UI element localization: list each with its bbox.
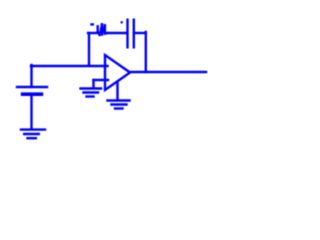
wire feedback right vertical <box>145 32 147 72</box>
wire resistor to C2 <box>108 32 127 34</box>
wire output <box>130 71 206 73</box>
wire input horizontal to inverting input <box>31 65 108 67</box>
ground G1 <box>21 130 45 139</box>
capacitor C1 bottom plate (thick) <box>23 92 42 96</box>
wire noninverting drop <box>92 80 94 88</box>
wire feedback left vertical <box>88 33 90 65</box>
wire top-left segment <box>88 32 98 34</box>
capacitor C2 right plate <box>133 20 135 48</box>
wire input corner vertical <box>30 65 32 86</box>
wire C1 stem <box>30 96 32 129</box>
value label speck <box>121 21 123 23</box>
wire power pin <box>116 82 118 99</box>
wire C2 to corner <box>134 32 146 34</box>
capacitor C1 top plate <box>17 86 47 88</box>
capacitor C2 left plate <box>126 20 128 48</box>
resistor R1 <box>92 24 108 35</box>
ground G2 <box>81 89 102 97</box>
op-amp U1 <box>105 55 130 90</box>
wire noninverting input <box>94 79 109 81</box>
ground G3 <box>108 101 130 109</box>
